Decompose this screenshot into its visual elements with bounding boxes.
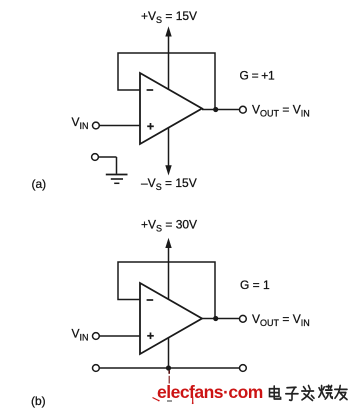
svg-text:VIN: VIN bbox=[72, 115, 89, 131]
svg-text:VIN: VIN bbox=[72, 327, 89, 343]
svg-text:–VS = 15V: –VS = 15V bbox=[141, 176, 197, 192]
svg-text:+VS = 15V: +VS = 15V bbox=[141, 9, 197, 25]
svg-text:G = 1: G = 1 bbox=[240, 278, 270, 292]
svg-text:VOUT = VIN: VOUT = VIN bbox=[252, 312, 310, 328]
svg-text:(a): (a) bbox=[32, 177, 47, 191]
svg-text:(b): (b) bbox=[31, 394, 46, 408]
svg-text:VOUT = VIN: VOUT = VIN bbox=[252, 103, 310, 119]
svg-text:elecfans·com: elecfans·com bbox=[157, 382, 263, 402]
svg-text:G = +1: G = +1 bbox=[240, 69, 276, 83]
svg-text:+VS = 30V: +VS = 30V bbox=[141, 218, 197, 234]
